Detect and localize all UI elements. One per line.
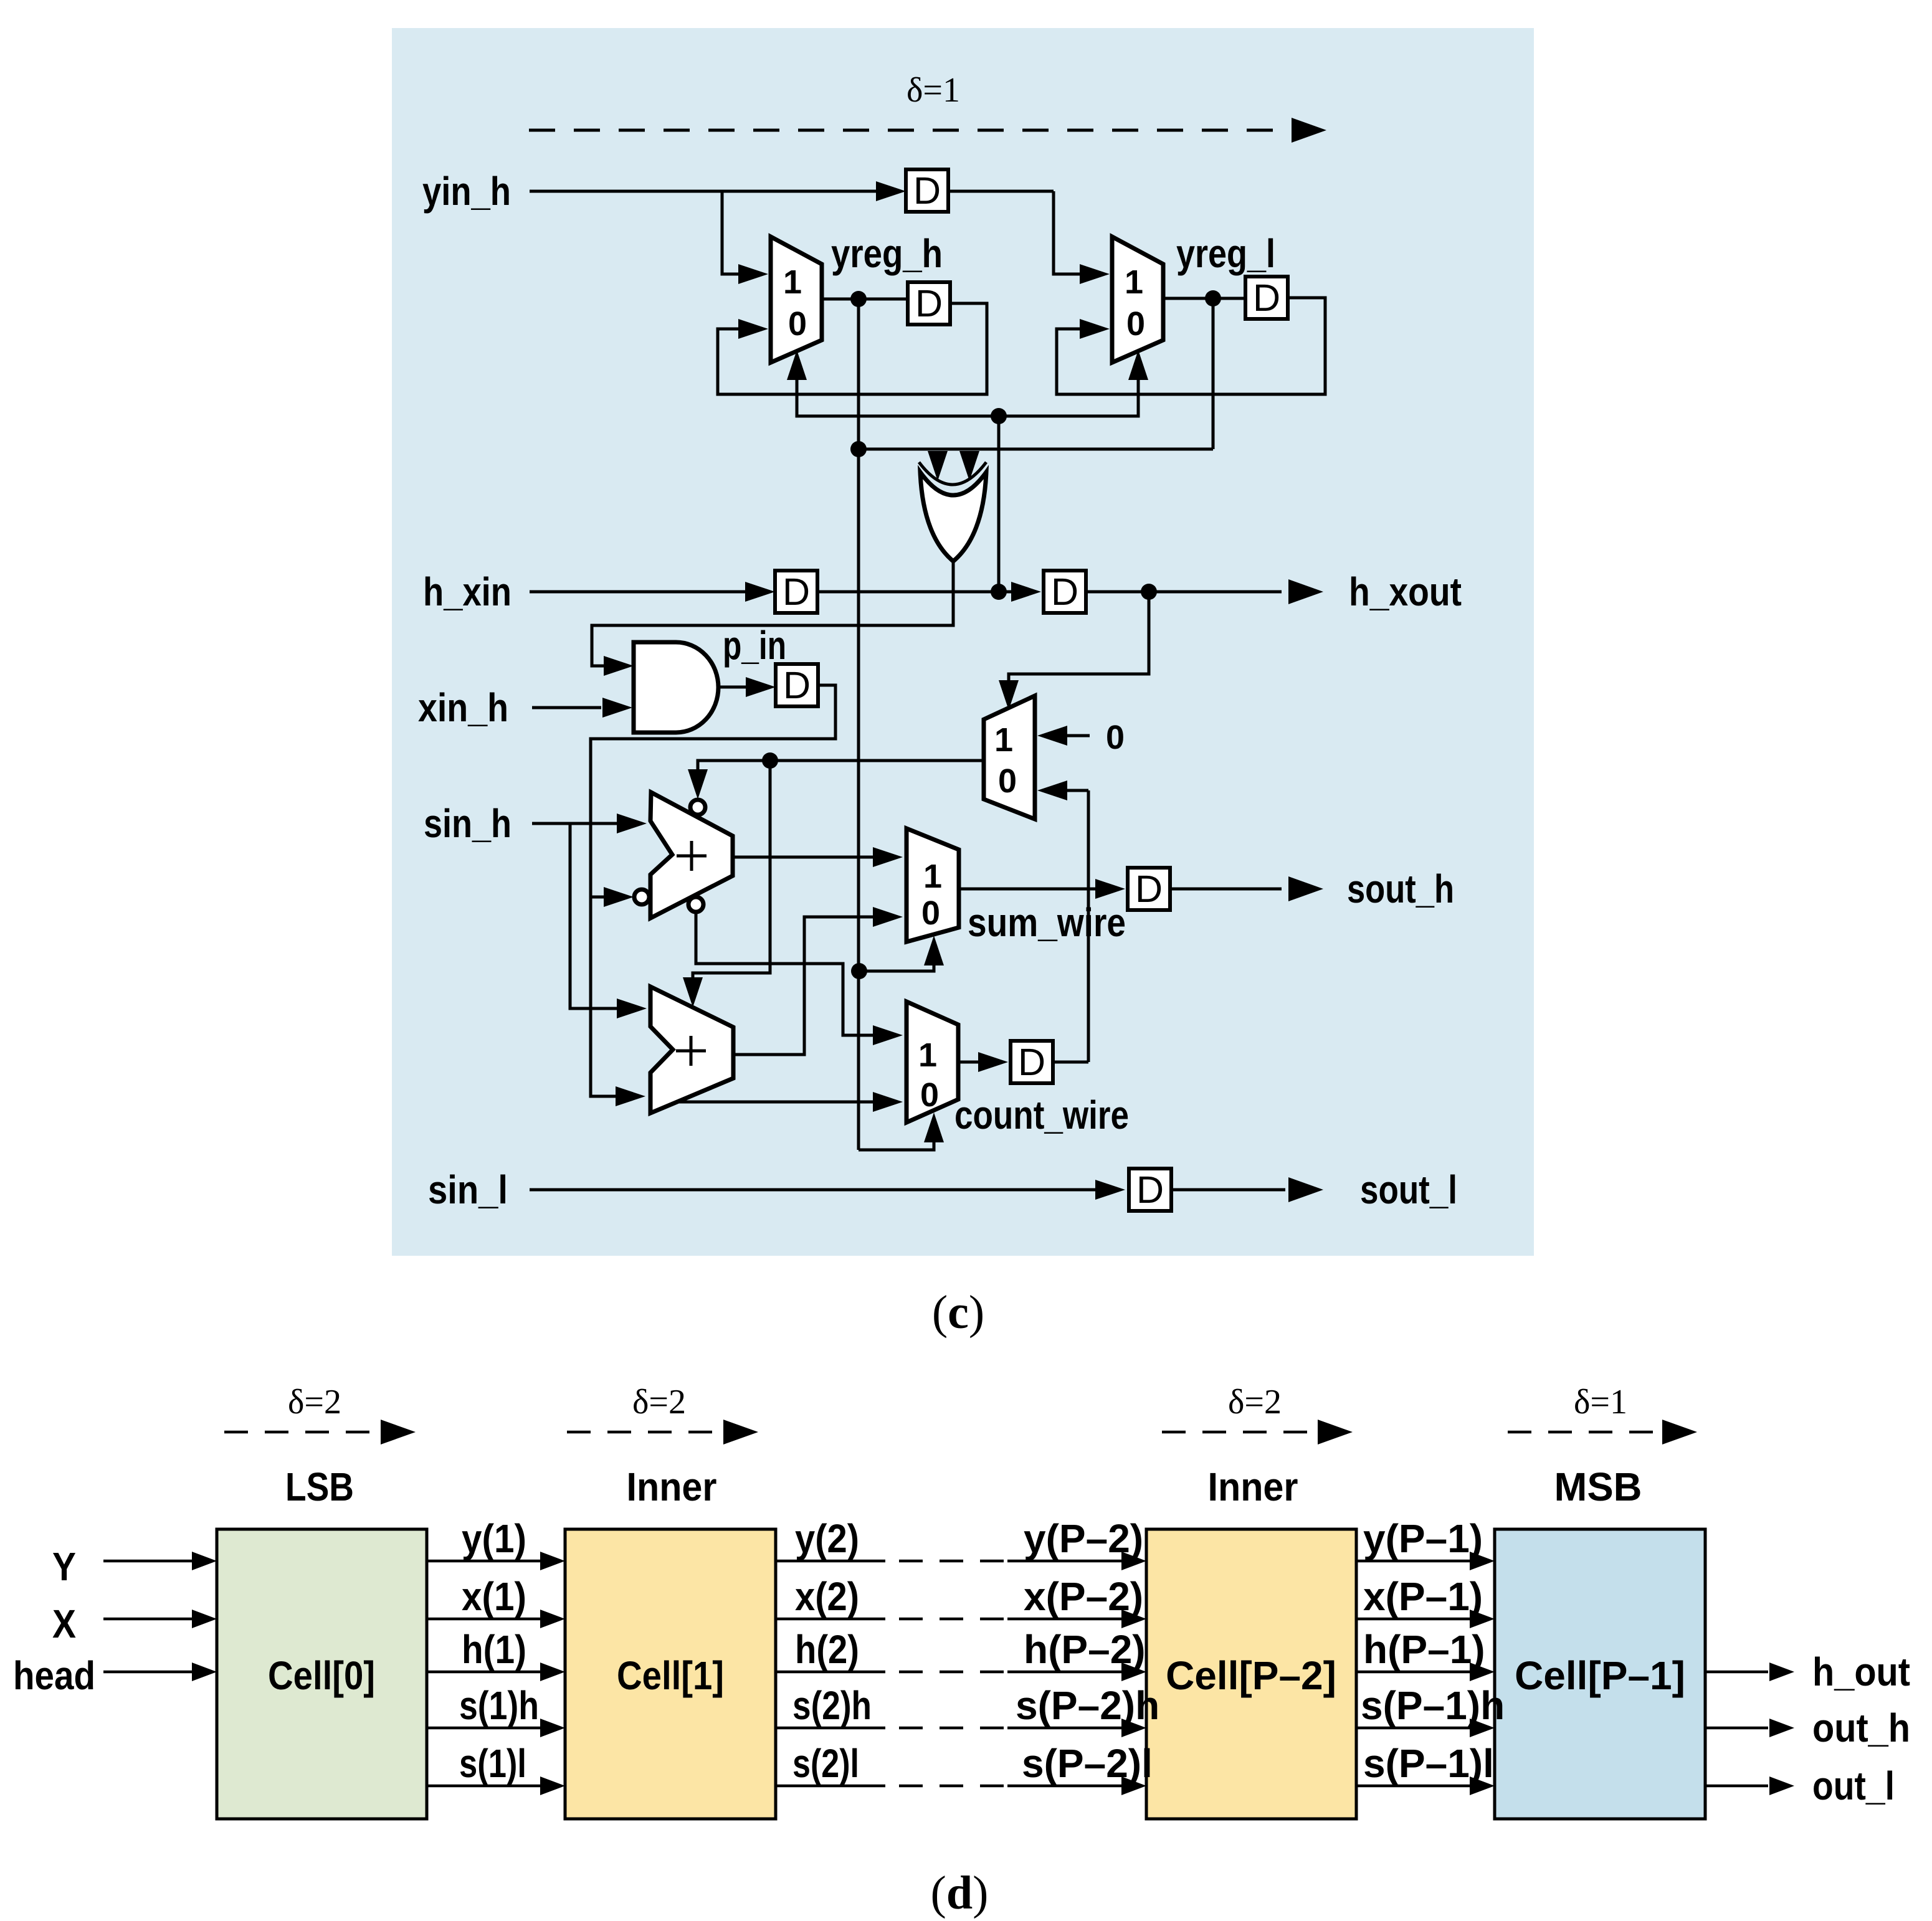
svg-text:sin_h: sin_h [424,801,512,846]
svg-text:Y: Y [52,1544,76,1589]
svg-text:(c): (c) [932,1286,984,1339]
svg-text:1: 1 [994,721,1013,759]
svg-text:x(1): x(1) [462,1574,526,1619]
svg-text:x(P–1): x(P–1) [1363,1574,1483,1619]
svg-text:δ=1: δ=1 [907,71,960,110]
svg-text:1: 1 [783,263,802,301]
svg-text:head: head [13,1653,95,1698]
svg-text:1: 1 [918,1036,937,1074]
svg-text:Cell[1]: Cell[1] [617,1653,724,1698]
svg-text:δ=1: δ=1 [1574,1383,1627,1421]
svg-text:p_in: p_in [723,623,786,668]
svg-text:MSB: MSB [1554,1464,1642,1509]
svg-text:δ=2: δ=2 [1228,1383,1282,1421]
svg-text:x(P–2): x(P–2) [1024,1574,1143,1619]
svg-text:s(1)h: s(1)h [459,1683,539,1728]
svg-text:h_xout: h_xout [1349,569,1462,614]
svg-text:1: 1 [923,858,942,895]
svg-text:sum_wire: sum_wire [968,900,1126,945]
svg-text:s(2)l: s(2)l [792,1741,859,1786]
svg-text:count_wire: count_wire [954,1093,1129,1137]
svg-text:Inner: Inner [627,1464,717,1509]
svg-text:yreg_l: yreg_l [1176,231,1275,276]
svg-text:sin_l: sin_l [428,1167,508,1212]
svg-text:y(P–1): y(P–1) [1363,1516,1483,1561]
svg-text:sout_l: sout_l [1360,1167,1457,1212]
svg-text:s(P–1)l: s(P–1)l [1363,1741,1494,1786]
svg-text:δ=2: δ=2 [632,1383,686,1421]
svg-text:sout_h: sout_h [1347,866,1454,911]
svg-text:h_xin: h_xin [423,569,512,614]
svg-text:y(2): y(2) [795,1516,859,1561]
svg-text:s(P–1)h: s(P–1)h [1361,1683,1505,1728]
svg-text:s(1)l: s(1)l [459,1741,526,1786]
svg-text:LSB: LSB [285,1464,354,1509]
svg-text:(d): (d) [931,1867,989,1919]
svg-text:1: 1 [1125,263,1143,301]
svg-text:h_out: h_out [1812,1649,1910,1694]
svg-text:0: 0 [788,305,807,343]
svg-text:out_h: out_h [1812,1705,1910,1750]
svg-text:yreg_h: yreg_h [831,231,943,276]
svg-text:0: 0 [998,762,1017,800]
svg-text:x(2): x(2) [795,1574,859,1619]
svg-text:s(P–2)l: s(P–2)l [1022,1741,1153,1786]
svg-text:s(P–2)h: s(P–2)h [1016,1683,1159,1728]
svg-text:0: 0 [920,1076,939,1114]
svg-text:0: 0 [1126,305,1145,343]
svg-text:s(2)h: s(2)h [792,1683,872,1728]
svg-text:X: X [52,1601,76,1646]
svg-text:xin_h: xin_h [418,685,508,730]
svg-text:h(P–2): h(P–2) [1024,1627,1146,1672]
svg-text:out_l: out_l [1812,1763,1895,1808]
svg-text:δ=2: δ=2 [288,1383,341,1421]
svg-text:h(1): h(1) [462,1627,526,1672]
svg-text:Inner: Inner [1208,1464,1298,1509]
svg-text:Cell[P–2]: Cell[P–2] [1166,1653,1336,1698]
svg-text:h(P–1): h(P–1) [1363,1627,1485,1672]
svg-text:0: 0 [1106,719,1125,756]
svg-text:Cell[0]: Cell[0] [268,1653,375,1698]
svg-text:yin_h: yin_h [422,169,511,214]
svg-text:Cell[P–1]: Cell[P–1] [1515,1653,1685,1698]
svg-text:y(1): y(1) [462,1516,526,1561]
svg-text:h(2): h(2) [795,1627,859,1672]
svg-text:0: 0 [921,894,940,932]
svg-text:y(P–2): y(P–2) [1024,1516,1143,1561]
